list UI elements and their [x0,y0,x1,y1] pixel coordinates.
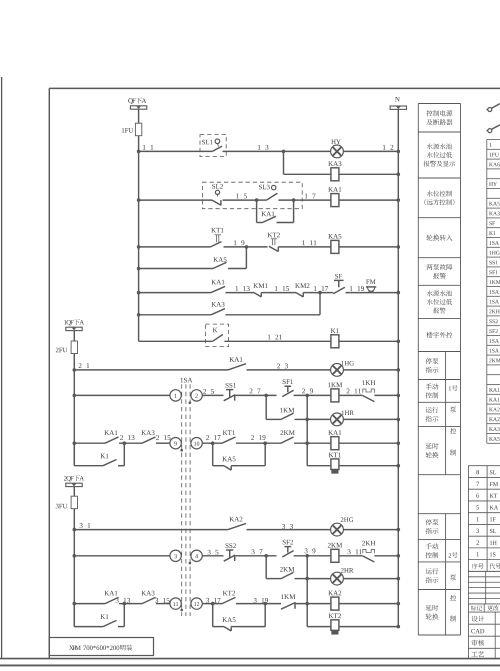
BOM table [467,466,469,572]
float switch SL2 [212,184,215,189]
wire [74,394,170,396]
wire 1-21 [224,340,331,342]
wire [138,109,140,123]
label run indication p2 [426,568,432,574]
terminal N [390,106,406,109]
contact KA3 parallel row4 [137,313,141,317]
wire 1-19 [346,292,368,294]
contact KA3 row8 [142,437,156,443]
wire N bus [397,109,399,626]
label run indication p1 [426,407,432,413]
wire 3-3 [247,529,331,531]
wire [139,246,211,248]
contact KA1 row8 [105,437,119,443]
wire bus L2 [79,363,82,368]
wire 1-13 [226,292,255,294]
wire 1-1 [143,145,146,150]
contact KA5 parallel KT1 row8 [212,443,214,466]
selector position dot [180,449,183,452]
contact KA3 rowC [142,597,156,603]
time relay coil KT2 [307,626,331,628]
wire [374,394,398,396]
node line pump1 [306,395,308,465]
contact 2KM row8 [281,437,294,443]
cabinet label XRM [49,638,153,656]
wire bus L1 [138,136,140,342]
BOM header [472,563,478,569]
fuse 1FU [135,123,141,136]
terminal 1QF-A [64,320,66,324]
wire [339,173,398,175]
wire [139,292,211,294]
pushbutton SF [334,279,344,281]
contactor coil 1KM [331,389,339,402]
label source pool alarm row [427,290,433,296]
breaker symbol QF1 [488,108,492,112]
wire [139,340,213,342]
contact KA5 parallel KT2 rowC [212,604,214,627]
terminal QF-A [128,98,133,104]
buzzer FM [366,280,369,284]
wire 1-3 [223,150,284,152]
selector contact 3 [170,550,181,561]
wire [343,578,398,580]
breaker symbol QF2 [488,129,492,133]
wire [139,199,212,201]
component list table [486,140,488,444]
wire 3-9 [294,555,331,557]
wire 2-19 [236,442,281,444]
sheet bottom border [0,658,500,660]
contactor coil 2KM [331,549,339,562]
wire 2-15 [156,442,170,444]
timed contact KT2 [268,233,273,238]
thermal overload contact 1KH [363,389,375,393]
wire [339,442,398,444]
dashed enclosure SL2 SL3 [202,182,302,209]
label delay alternation p1 [426,443,432,449]
lamp 1HG [331,364,344,377]
wire [74,555,170,557]
timed contact KT1 row8 [222,437,236,443]
wire [343,418,398,420]
contact 1KM rowC [281,602,296,609]
timed contact KT1 [211,228,216,233]
selector position dot [180,609,183,612]
start button SF2 [284,546,291,548]
label alternation row [426,235,432,241]
contact 2KM parallel SF2 [265,556,267,579]
contact KA1 rowC [105,597,119,603]
relay coil KA1 [331,437,339,450]
selector contact 12 [191,598,202,609]
wire bus L3 [80,523,83,528]
wire [374,555,398,557]
wire 3-19 [236,603,281,605]
contact KM1 [254,293,261,297]
lamp 1HR [307,418,331,420]
fuse 3FU [71,496,77,509]
label water level control row [427,191,433,197]
title block CAD row [468,635,500,637]
contact KA1 row6 [228,364,246,370]
contact 1KM parallel SF1 [265,395,267,419]
selector contact 11 [170,598,181,609]
contact KA1 parallel SL3 [256,200,258,222]
selector contact 4 [191,550,202,561]
wire [73,487,75,497]
contact K1 parallel rowC [73,604,75,627]
frame top border [49,87,500,89]
wire 1-11 [278,246,331,248]
contact KA1 row4 [211,286,225,292]
wire 2-9 [294,394,331,396]
wire 3-7 [236,555,277,557]
wire [339,246,398,248]
wire [343,369,398,371]
selector contact 10 [191,438,202,449]
wire 3-15 [156,603,170,605]
wire 3-5 [202,555,223,557]
lamp HY [331,145,344,158]
wire 1-15 [267,292,296,294]
wire [339,340,398,342]
stop button SS1 [226,389,233,391]
node line pump2 [306,556,308,627]
remote contact K [206,324,229,347]
wire 1-2 [343,150,398,152]
contact K1 parallel row8 [73,443,75,466]
wire 2-7 [236,394,277,396]
stop button SS2 [226,549,233,551]
timed contact KT2 rowC [222,597,236,603]
wire [73,331,75,341]
wire [339,603,398,605]
contact KM2 [296,293,303,297]
label two pump fault row [427,264,433,270]
relay coil KA5 [331,240,339,253]
wire [74,529,228,531]
time relay coil KT1 [307,465,331,467]
fuse 2FU [71,341,77,354]
wire 1-17 [309,292,334,294]
contact KA2 rowA [228,523,246,529]
wire [74,442,105,444]
float switch SL3 [259,185,262,190]
label pump2 control vertical [449,553,451,557]
title block check row [468,647,500,649]
label manual control p2 [426,543,432,549]
title block mark row [467,604,469,659]
wire [294,442,331,444]
label stop indication p1 [426,358,432,364]
wire 3-17 [202,603,222,605]
node N [395,97,400,101]
wire 2-3 [247,369,331,371]
wire 3-13 [119,603,142,605]
wire 1-9 [224,246,247,248]
selector contact 2 [191,390,202,401]
wire [74,369,228,371]
function table frame [417,104,419,636]
relay coil KA3 [331,168,339,181]
wire [284,150,331,152]
relay coil K1 [331,335,339,348]
wire [283,151,285,174]
wire [295,603,331,605]
function table pump1 group divider [445,352,447,475]
float switch SL1 [200,135,226,157]
title block design row [468,623,500,625]
lamp 2HR [307,578,331,580]
label source pool low level row [427,143,433,149]
label delay alternation p2 [426,605,432,611]
terminal 2QF-A [64,476,67,480]
selector switch 1SA linkage [181,378,183,383]
selector position dot [189,402,192,405]
function table pump2 group divider [445,514,447,635]
label control power row [426,110,432,116]
relay coil KA2 [331,597,339,610]
wire 3-11 [339,555,363,557]
wire 1-5 [223,199,257,201]
start button SF1 [284,385,291,387]
wire 2-17 [202,442,222,444]
sheet left edge [1,77,3,659]
label stop indication p2 [426,519,432,525]
wire [343,529,398,531]
contact KA5 parallel KT1 [137,267,141,271]
label manual control p1 [426,383,432,389]
selector position dot [189,562,192,565]
wire [367,292,398,294]
lamp 2HG [331,523,344,536]
thermal overload contact 2KH [363,549,375,553]
wire 2-13 [119,442,142,444]
frame left border [48,88,50,658]
selector contact 1 [170,390,181,401]
title block revision rows [468,570,500,572]
wire [74,603,105,605]
label building external row [426,332,432,338]
title block craft row [471,652,477,657]
selector contact 9 [170,438,181,449]
wire 2-5 [202,394,223,396]
relay coil KA1 row2 [331,194,339,207]
label pump1 control vertical [449,386,451,390]
wire 2-11 [339,394,363,396]
wire 1-7 [278,199,398,201]
